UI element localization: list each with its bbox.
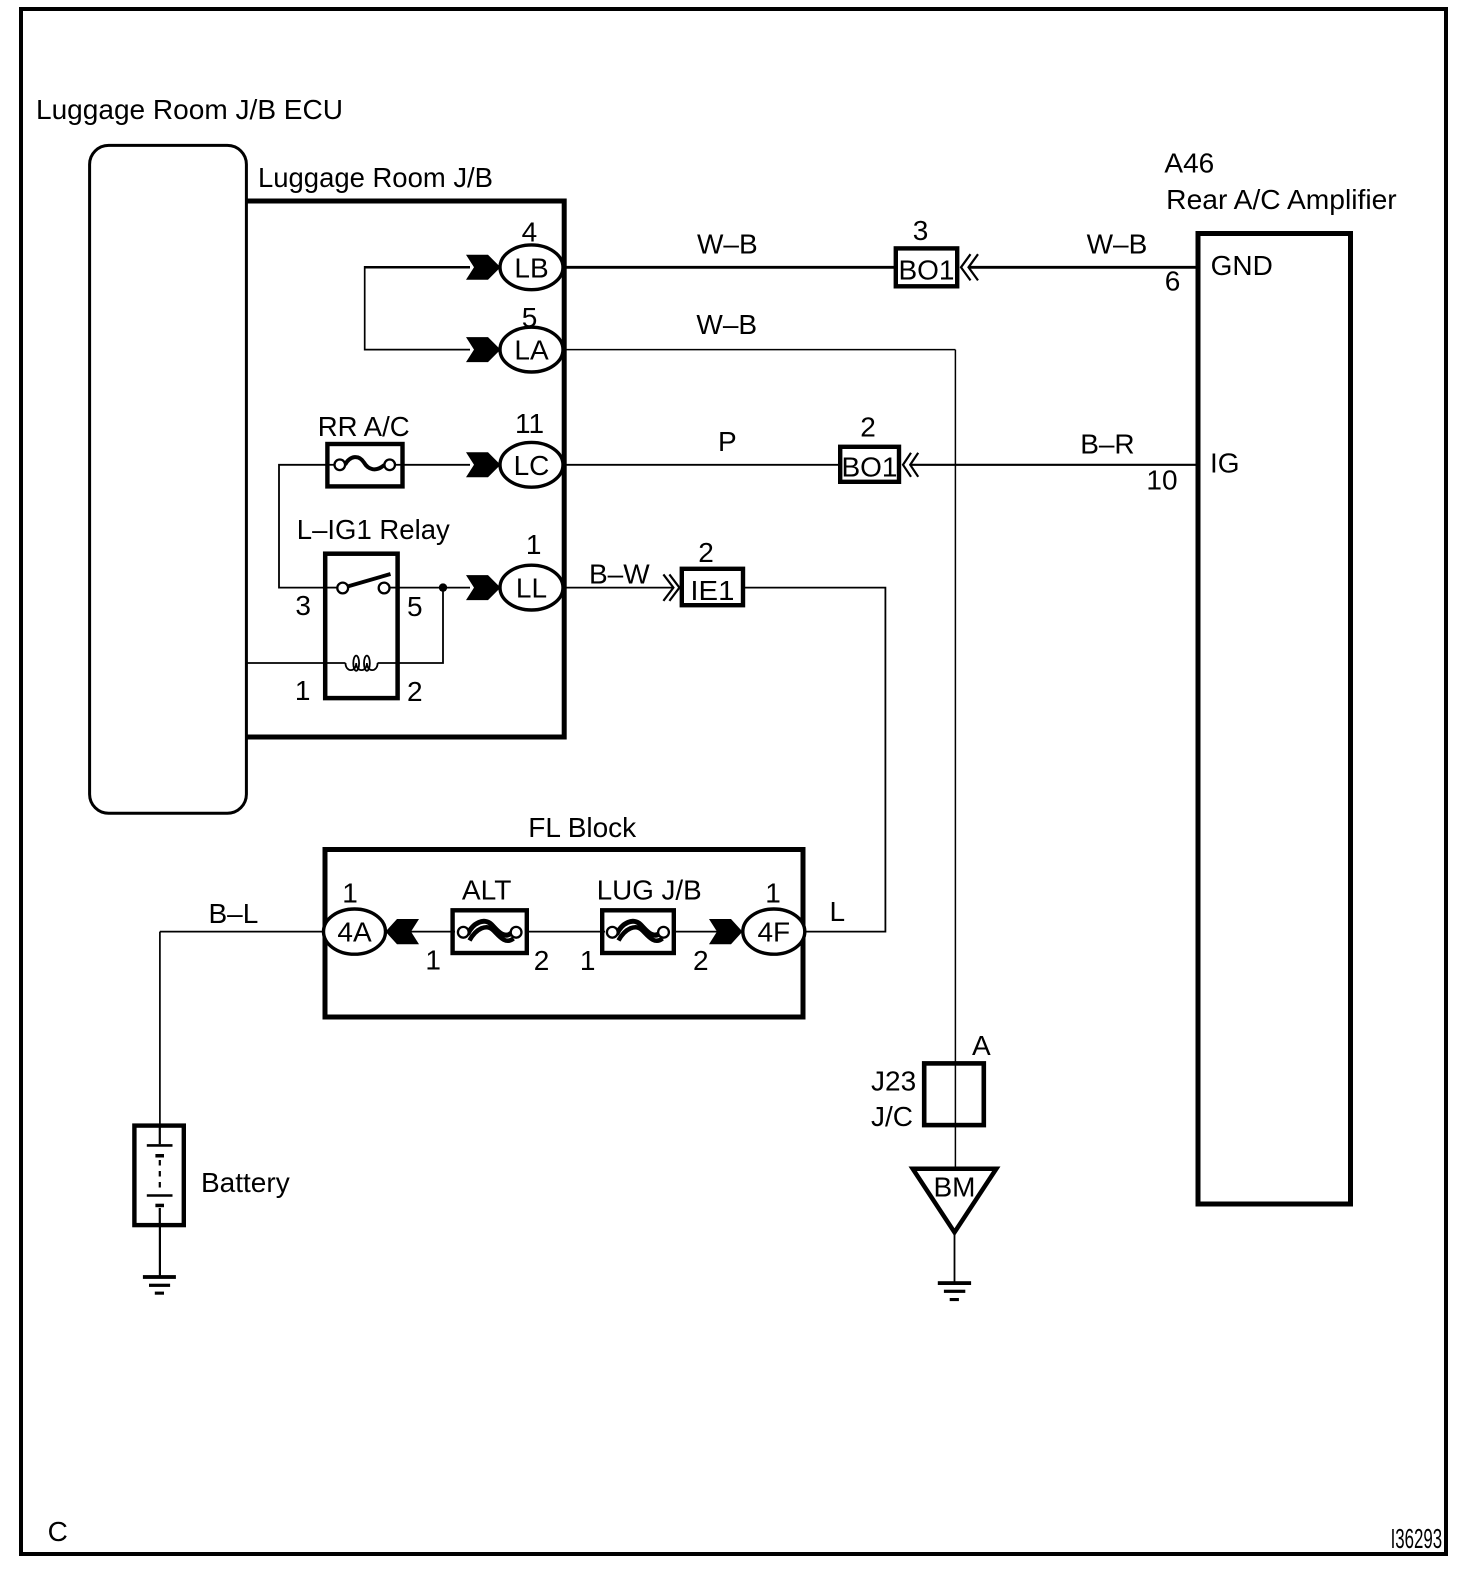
arrow into LC xyxy=(466,452,501,477)
svg-text:5: 5 xyxy=(522,302,538,333)
A46 Rear A/C Amplifier box xyxy=(1198,234,1351,1205)
svg-text:J/C: J/C xyxy=(871,1101,913,1132)
svg-text:2: 2 xyxy=(693,945,709,976)
svg-text:Battery: Battery xyxy=(201,1167,290,1198)
svg-text:LB: LB xyxy=(514,252,548,283)
chevrons IE1 xyxy=(663,574,679,601)
fuse RR A/C xyxy=(327,444,402,486)
svg-text:BO1: BO1 xyxy=(842,452,898,483)
connector BO1 lower xyxy=(840,447,899,483)
svg-text:FL Block: FL Block xyxy=(528,812,637,843)
ground triangle BM xyxy=(913,1169,997,1233)
svg-text:LA: LA xyxy=(514,335,549,366)
svg-text:2: 2 xyxy=(534,945,550,976)
svg-text:4F: 4F xyxy=(757,917,790,948)
svg-text:1: 1 xyxy=(580,945,596,976)
ground battery xyxy=(143,1275,176,1295)
svg-text:1: 1 xyxy=(526,529,542,560)
svg-text:L: L xyxy=(830,896,846,927)
connector IE1 xyxy=(682,569,743,606)
wire from fuse left down to relay pin 3 xyxy=(279,465,326,588)
chevrons BO1 lower xyxy=(903,453,918,477)
wire W-B from LB to BO1 xyxy=(540,266,898,269)
svg-text:A: A xyxy=(972,1030,991,1061)
svg-text:GND: GND xyxy=(1211,250,1273,281)
relay L-IG1 xyxy=(325,554,397,698)
junction node xyxy=(439,583,447,591)
svg-text:1: 1 xyxy=(295,675,311,706)
svg-text:BM: BM xyxy=(934,1172,976,1203)
svg-text:10: 10 xyxy=(1146,465,1177,496)
svg-text:RR A/C: RR A/C xyxy=(318,411,410,442)
arrow into LA xyxy=(466,337,501,362)
wire from RR A/C fuse to LC xyxy=(404,464,470,466)
svg-text:1: 1 xyxy=(342,878,358,909)
svg-text:2: 2 xyxy=(698,537,714,568)
svg-text:L–IG1 Relay: L–IG1 Relay xyxy=(297,514,450,545)
connector 4F xyxy=(743,909,805,954)
svg-text:C: C xyxy=(48,1516,68,1547)
wire B-R from BO1 to amplifier IG pin 10 xyxy=(910,464,1198,466)
connector 4A xyxy=(324,909,386,954)
wire W-B from LA to vertical xyxy=(540,349,955,351)
FL Block wires xyxy=(160,931,330,933)
wire B-W from LL to IE1 xyxy=(540,587,673,589)
svg-text:ALT: ALT xyxy=(462,875,512,906)
battery xyxy=(134,1125,183,1226)
arrow into LB xyxy=(466,255,501,280)
svg-text:1: 1 xyxy=(425,944,441,975)
wire battery to ground xyxy=(159,1226,161,1276)
FL Block box xyxy=(325,850,803,1018)
chevrons BO1 upper xyxy=(961,254,978,280)
wire BM to ground xyxy=(954,1232,956,1282)
svg-text:IG: IG xyxy=(1210,448,1240,479)
wire loop LB top segment xyxy=(365,266,470,269)
svg-text:4: 4 xyxy=(522,217,538,248)
wire B-L vertical to battery xyxy=(159,932,161,1125)
Luggage Room J/B box xyxy=(246,201,564,737)
wire loop LA segment xyxy=(365,349,470,351)
connector LB xyxy=(500,245,563,290)
fuse LUG J/B xyxy=(602,910,674,953)
wire from relay pin 5 to LL xyxy=(398,587,470,589)
fuse ALT xyxy=(453,910,527,953)
svg-text:2: 2 xyxy=(407,676,423,707)
svg-text:B–L: B–L xyxy=(209,898,259,929)
svg-text:11: 11 xyxy=(515,408,544,439)
svg-text:LC: LC xyxy=(514,450,550,481)
arrow into 4A xyxy=(386,919,420,944)
wire L from IE1 right to FL block 4F xyxy=(744,588,885,932)
Luggage Room J/B ECU block xyxy=(90,145,247,813)
svg-text:W–B: W–B xyxy=(697,228,758,259)
wire W-B vertical down to J23 xyxy=(954,350,956,1170)
svg-text:2: 2 xyxy=(860,412,876,443)
wire 4A to ALT xyxy=(385,931,455,933)
svg-text:W–B: W–B xyxy=(1087,228,1148,259)
wire W-B from BO1 to amplifier GND pin 6 xyxy=(969,266,1199,269)
connector LA xyxy=(500,327,563,372)
ground BM xyxy=(938,1281,971,1301)
junction connector J23 J/C xyxy=(924,1063,984,1125)
svg-text:P: P xyxy=(718,426,737,457)
connector BO1 upper xyxy=(896,248,957,286)
svg-text:B–W: B–W xyxy=(589,559,650,590)
wire P from LC to BO1 xyxy=(540,464,842,466)
svg-text:3: 3 xyxy=(913,215,929,246)
svg-text:1: 1 xyxy=(765,878,781,909)
svg-text:LUG J/B: LUG J/B xyxy=(597,875,702,906)
svg-text:I36293: I36293 xyxy=(1391,1523,1443,1554)
svg-text:W–B: W–B xyxy=(696,309,757,340)
svg-text:LL: LL xyxy=(516,573,547,604)
wire LUG to 4F xyxy=(672,931,745,933)
wire from junction down to relay pin 2 xyxy=(398,588,443,663)
svg-text:3: 3 xyxy=(295,590,311,621)
svg-text:Luggage Room J/B: Luggage Room J/B xyxy=(258,162,493,193)
arrow into LL xyxy=(466,575,501,600)
svg-text:J23: J23 xyxy=(871,1066,916,1097)
svg-text:B–R: B–R xyxy=(1080,429,1134,460)
connector LC xyxy=(500,442,563,487)
svg-text:BO1: BO1 xyxy=(899,255,955,286)
wire loop vertical xyxy=(364,266,366,351)
svg-text:Luggage Room J/B ECU: Luggage Room J/B ECU xyxy=(36,94,343,125)
svg-text:A46: A46 xyxy=(1164,148,1214,179)
connector LL xyxy=(500,565,563,610)
wire from ECU to relay coil pin 1 xyxy=(245,662,326,664)
svg-text:4A: 4A xyxy=(337,917,372,948)
svg-text:5: 5 xyxy=(407,591,423,622)
arrow into 4F xyxy=(709,919,743,944)
svg-text:Rear A/C Amplifier: Rear A/C Amplifier xyxy=(1166,184,1397,215)
wire ALT to LUG xyxy=(525,931,605,933)
svg-text:IE1: IE1 xyxy=(690,575,734,606)
svg-text:6: 6 xyxy=(1165,265,1181,296)
